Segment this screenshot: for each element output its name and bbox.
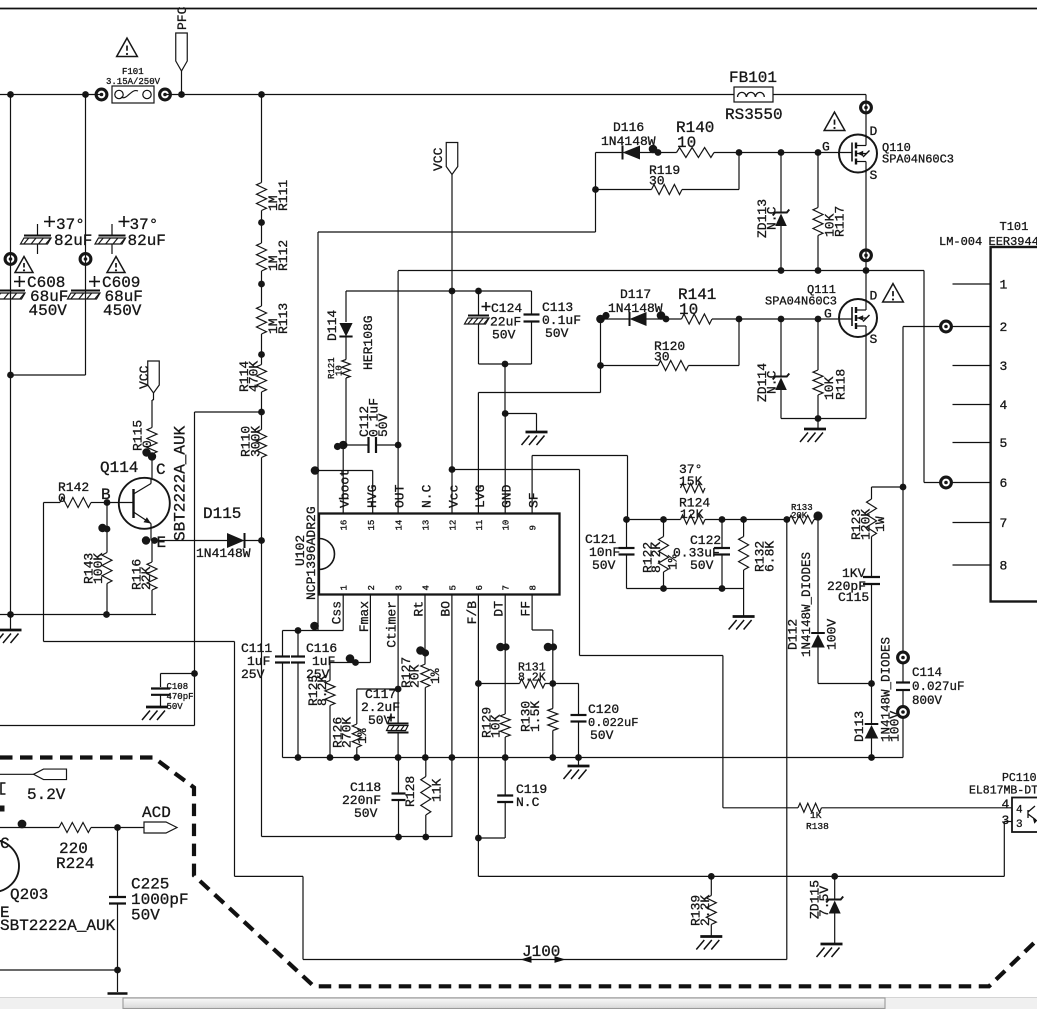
svg-text:N.C: N.C bbox=[765, 206, 780, 230]
resistor R138 1K bbox=[723, 803, 1012, 832]
wire Q111 source to ground rail bbox=[781, 336, 866, 422]
svg-text:Q203: Q203 bbox=[10, 886, 48, 904]
svg-text:PFC: PFC bbox=[175, 6, 190, 30]
svg-text:50V: 50V bbox=[492, 328, 516, 343]
resistor R130 1.5K bbox=[519, 684, 558, 761]
wire C108 node x=194.5 bbox=[0, 670, 198, 725]
svg-text:Q114: Q114 bbox=[100, 459, 138, 477]
svg-text:3.15A/250V: 3.15A/250V bbox=[106, 77, 161, 87]
svg-text:11K: 11K bbox=[430, 778, 445, 802]
svg-text:C: C bbox=[156, 461, 166, 479]
wire Q110 source to half-bridge rail with terminal bbox=[861, 171, 872, 274]
svg-text:D115: D115 bbox=[203, 505, 241, 523]
svg-text:22K: 22K bbox=[139, 566, 154, 590]
capacitor C609 68uF 450V bbox=[68, 274, 143, 320]
svg-text:10: 10 bbox=[677, 134, 696, 152]
svg-text:D: D bbox=[870, 289, 878, 304]
capacitor C608 68uF 450V bbox=[0, 274, 68, 320]
resistor R123 120K 1W bbox=[849, 499, 888, 540]
resistor R127 20K 1% bbox=[399, 657, 443, 761]
svg-text:DT: DT bbox=[492, 601, 507, 617]
svg-text:11: 11 bbox=[475, 520, 485, 531]
wire HV bus rail y=94.5 with junctions bbox=[0, 91, 866, 98]
svg-text:LVG: LVG bbox=[473, 485, 488, 508]
net flag VCC (Q114) bbox=[137, 361, 159, 428]
svg-text:6.8K: 6.8K bbox=[763, 541, 778, 572]
T101 pin stubs and numbers bbox=[953, 278, 1008, 574]
svg-text:1N4148W: 1N4148W bbox=[196, 546, 251, 561]
wire BO pin vertical bbox=[449, 594, 456, 837]
svg-text:6: 6 bbox=[1000, 476, 1008, 491]
svg-text:5: 5 bbox=[1000, 436, 1008, 451]
resistor variant 15K 37deg bbox=[679, 462, 705, 493]
wire OUT pin14 to half-bridge rail bbox=[397, 271, 399, 514]
svg-text:120K: 120K bbox=[859, 509, 874, 540]
resistor R116 22K bbox=[130, 541, 158, 615]
transistor Q114 SBT2222A_AUK bbox=[100, 425, 190, 552]
svg-text:82uF: 82uF bbox=[128, 232, 166, 250]
wire J100 jumper row bbox=[303, 943, 787, 963]
svg-text:800V: 800V bbox=[912, 694, 943, 708]
svg-text:50V: 50V bbox=[376, 413, 391, 437]
wire R115 to Q114 collector bbox=[142, 448, 156, 478]
svg-text:D116: D116 bbox=[613, 120, 644, 135]
svg-text:4: 4 bbox=[422, 585, 432, 590]
capacitor 82uF 37deg variant #1 bbox=[21, 216, 93, 254]
svg-text:300K: 300K bbox=[249, 426, 264, 457]
resistor R133 20K bbox=[789, 503, 823, 524]
wire divider bottom rail bbox=[627, 585, 744, 615]
svg-text:1.5K: 1.5K bbox=[528, 701, 543, 732]
svg-text:9: 9 bbox=[529, 525, 539, 530]
diode D114 HER108G bbox=[325, 310, 376, 370]
svg-text:50V: 50V bbox=[590, 728, 614, 743]
svg-text:E: E bbox=[157, 534, 167, 552]
transistor Q203 SBT2222A_AUK (partial at edge) bbox=[0, 835, 116, 935]
svg-text:D117: D117 bbox=[620, 287, 651, 302]
wire left bus A x=10.5 bbox=[10, 95, 12, 615]
wire C124/C113 bottom to GND pin bbox=[479, 361, 532, 414]
svg-text:SPA04N60C3: SPA04N60C3 bbox=[882, 153, 954, 167]
svg-text:14: 14 bbox=[395, 520, 405, 531]
svg-text:8: 8 bbox=[1000, 559, 1008, 574]
terminal ring T101 pin6 bbox=[941, 477, 952, 488]
svg-text:1W: 1W bbox=[873, 516, 888, 532]
wire DT net vertical x=786.8 to J100 bbox=[786, 520, 788, 960]
wire Ctimer node bbox=[357, 594, 402, 724]
svg-text:1: 1 bbox=[340, 585, 350, 590]
capacitor C117 2.2uF 50V bbox=[361, 687, 409, 761]
terminal ring T101 pin2 bbox=[941, 321, 952, 332]
resistor R124 12K bbox=[679, 496, 710, 525]
svg-text:FF: FF bbox=[519, 601, 534, 617]
svg-text:100V: 100V bbox=[825, 619, 840, 650]
svg-text:ACD: ACD bbox=[142, 804, 171, 822]
svg-text:3: 3 bbox=[395, 585, 405, 590]
scrollbar at bottom bbox=[0, 998, 1037, 1009]
wire HVG drive net bbox=[318, 153, 599, 233]
svg-text:20K: 20K bbox=[408, 664, 423, 688]
svg-text:15K: 15K bbox=[679, 474, 703, 489]
svg-text:EER3944: EER3944 bbox=[989, 235, 1037, 249]
svg-text:R138: R138 bbox=[806, 821, 829, 832]
wire Q110 gate row bbox=[739, 149, 852, 156]
diode D115 1N4148W bbox=[196, 505, 251, 561]
wire x=318 vertical HVG-to-Css route bbox=[310, 232, 319, 631]
fuse F101 3.15A/250V bbox=[96, 67, 170, 103]
svg-text:10: 10 bbox=[335, 365, 345, 376]
wire T101 pin2 to C114 bbox=[903, 327, 941, 652]
capacitor C116 1uF 25V bbox=[291, 631, 337, 761]
resistor R113 1M bbox=[257, 303, 292, 334]
svg-text:10K: 10K bbox=[489, 714, 504, 738]
wire PC110 pin3 to F/B net bbox=[1004, 822, 1012, 877]
svg-text:50V: 50V bbox=[167, 702, 184, 712]
svg-text:LM-004: LM-004 bbox=[939, 235, 982, 249]
svg-text:F101: F101 bbox=[122, 67, 144, 77]
warning triangle near C609 bbox=[107, 257, 125, 273]
svg-text:R224: R224 bbox=[56, 855, 94, 873]
terminal ring on bus A bbox=[5, 254, 16, 265]
wire VCC row y=291 and D114 branch bbox=[346, 288, 532, 445]
capacitor C119 N.C bbox=[497, 758, 547, 839]
ground under left bus bbox=[0, 615, 22, 644]
wire LVG pin11 to R120 node bbox=[478, 366, 600, 514]
wire Fmax row bbox=[330, 594, 370, 681]
svg-text:50V: 50V bbox=[368, 713, 392, 728]
resistor R131 8.2K bbox=[478, 662, 578, 689]
wire divider chain x=261.5 bbox=[258, 95, 265, 837]
svg-text:S: S bbox=[870, 332, 878, 347]
svg-text:HER108G: HER108G bbox=[361, 315, 376, 370]
wire emitter row with D115 bbox=[142, 536, 262, 544]
capacitor C114 0.027uF 800V with terminals bbox=[896, 652, 965, 757]
svg-text:8.2K: 8.2K bbox=[518, 672, 546, 685]
svg-text:50V: 50V bbox=[690, 558, 714, 573]
svg-text:8.2K: 8.2K bbox=[649, 542, 664, 573]
svg-text:7: 7 bbox=[1000, 516, 1008, 531]
capacitor C108 470pF 50V bbox=[142, 674, 195, 721]
svg-text:25V: 25V bbox=[241, 667, 265, 682]
svg-text:N.C: N.C bbox=[765, 370, 780, 394]
svg-text:16: 16 bbox=[340, 520, 350, 531]
capacitor C225 1000pF 50V bbox=[108, 828, 189, 994]
svg-text:10: 10 bbox=[502, 520, 512, 531]
svg-text:30: 30 bbox=[649, 174, 665, 189]
resistor R128 11K bbox=[403, 758, 445, 841]
wire Q114 base node bbox=[98, 499, 110, 552]
wire Vcc to opto route bbox=[452, 470, 723, 808]
svg-text:SPA04N60C3: SPA04N60C3 bbox=[765, 295, 837, 309]
wire LVG drive left node bbox=[596, 312, 609, 369]
opto-coupler PC110 EL817MB-DT bbox=[969, 772, 1037, 832]
capacitor C115 220pF 1KV bbox=[827, 537, 880, 684]
svg-text:C108: C108 bbox=[167, 682, 189, 692]
svg-text:D112: D112 bbox=[786, 619, 801, 650]
svg-text:Ctimer: Ctimer bbox=[385, 601, 400, 648]
svg-text:R112: R112 bbox=[276, 240, 291, 271]
wire rail y=757.5 (signal ground return) bbox=[283, 757, 904, 759]
U102 pin numbers bbox=[340, 520, 539, 591]
transformer T101 EER3944 LM-004 bbox=[939, 220, 1037, 602]
svg-text:82uF: 82uF bbox=[54, 232, 92, 250]
wire HVG pin15 branch bbox=[318, 471, 373, 514]
svg-text:D: D bbox=[870, 124, 878, 139]
resistor R119 30 bbox=[596, 163, 740, 195]
svg-text:N.C: N.C bbox=[516, 795, 540, 810]
wire R141/R120 right join bbox=[736, 316, 743, 366]
svg-text:BO: BO bbox=[438, 601, 453, 617]
wire Q111 gate row bbox=[739, 316, 852, 323]
svg-text:12: 12 bbox=[448, 520, 458, 531]
ground under Q111 bbox=[800, 419, 826, 443]
svg-text:FB101: FB101 bbox=[729, 69, 777, 87]
warning triangle near F101 bbox=[117, 38, 138, 56]
svg-text:7: 7 bbox=[502, 585, 512, 590]
diode D116 1N4148W bbox=[596, 120, 677, 160]
wire Q111 drain bbox=[865, 271, 867, 301]
svg-text:3: 3 bbox=[1000, 359, 1008, 374]
svg-text:VCC: VCC bbox=[431, 147, 446, 171]
resistor R129 10K bbox=[480, 707, 511, 761]
dashed boundary of standby section bbox=[0, 758, 1037, 987]
svg-text:D114: D114 bbox=[325, 310, 340, 341]
op-amp U102 NCP1396ADR2G controller IC body bbox=[293, 506, 560, 600]
svg-text:6: 6 bbox=[475, 585, 485, 590]
resistor R122 8.2K 1% bbox=[641, 520, 681, 589]
ground below C120 on rail bbox=[564, 758, 590, 780]
transistor Q111 SPA04N60C3 MOSFET bbox=[765, 283, 878, 347]
resistor R120 30 bbox=[601, 339, 740, 371]
svg-text:15: 15 bbox=[367, 520, 377, 531]
svg-text:1: 1 bbox=[1000, 278, 1008, 293]
top toolbar edge line bbox=[0, 8, 1037, 10]
resistor R143 100K bbox=[82, 553, 113, 615]
svg-text:EL817MB-DT: EL817MB-DT bbox=[969, 785, 1037, 798]
svg-text:4: 4 bbox=[1000, 398, 1008, 413]
resistor R139 2.2K bbox=[689, 876, 723, 949]
svg-text:VCC: VCC bbox=[137, 365, 152, 389]
svg-text:1%: 1% bbox=[355, 728, 370, 744]
svg-text:50V: 50V bbox=[592, 558, 616, 573]
svg-text:1K: 1K bbox=[810, 810, 822, 821]
resistor R142 0 bbox=[44, 480, 108, 508]
svg-text:Rt: Rt bbox=[412, 601, 427, 617]
capacitor C120 0.022uF 50V bbox=[571, 684, 639, 761]
resistor R132 6.8K bbox=[739, 520, 778, 589]
capacitor C112 0.1uF 50V bbox=[343, 398, 401, 453]
zener ZD114 N.C bbox=[755, 319, 789, 419]
wire left bus B x=85.5 joining at y=375 bbox=[7, 95, 85, 379]
svg-text:450V: 450V bbox=[103, 302, 142, 320]
svg-text:3: 3 bbox=[1016, 819, 1023, 831]
svg-text:13: 13 bbox=[422, 520, 432, 531]
ground under divider block bbox=[729, 617, 755, 630]
wire standby bottom rail bbox=[0, 967, 121, 974]
zener ZD115 7.5V bbox=[808, 876, 844, 957]
terminal ring on bus B bbox=[80, 254, 91, 265]
wire F/B pin6 net bbox=[475, 594, 1004, 880]
resistor R115 0 bbox=[131, 420, 158, 454]
net flag 5.2V bbox=[0, 769, 67, 811]
wire Q110 drain to HV rail with terminal bbox=[861, 95, 872, 137]
resistor R117 10K bbox=[813, 153, 848, 271]
svg-text:30: 30 bbox=[654, 350, 670, 365]
resistor R141 10 bbox=[678, 286, 739, 324]
svg-text:3: 3 bbox=[1002, 813, 1010, 828]
svg-text:R117: R117 bbox=[833, 206, 848, 237]
wire feedback divider top rail y=519.5 bbox=[623, 516, 790, 523]
svg-text:R118: R118 bbox=[834, 369, 849, 400]
capacitor C121 10nF 50V bbox=[585, 520, 635, 589]
svg-text:RS3550: RS3550 bbox=[725, 106, 783, 124]
wire Q203 collector row bbox=[0, 820, 145, 831]
transistor Q110 SPA04N60C3 MOSFET bbox=[822, 124, 954, 183]
svg-text:J100: J100 bbox=[522, 943, 560, 961]
svg-text:R111: R111 bbox=[276, 180, 291, 211]
wire half-bridge rail to T101 pin6 bbox=[398, 267, 940, 482]
svg-text:N.C: N.C bbox=[420, 484, 435, 508]
svg-text:20K: 20K bbox=[791, 511, 808, 521]
svg-text:0: 0 bbox=[140, 440, 155, 448]
svg-text:8.2K: 8.2K bbox=[315, 675, 330, 706]
wire DT pin7 vertical bbox=[496, 594, 509, 714]
svg-text:5: 5 bbox=[448, 585, 458, 590]
resistor R224 220 bbox=[56, 823, 94, 874]
ground at U102 GND pin bbox=[522, 432, 548, 445]
svg-text:10: 10 bbox=[679, 301, 698, 319]
svg-text:4: 4 bbox=[1002, 797, 1010, 812]
wire Vboot pin16 node bbox=[334, 441, 348, 514]
warning triangle near C608 bbox=[15, 257, 33, 273]
svg-text:S: S bbox=[870, 168, 878, 183]
svg-text:50V: 50V bbox=[131, 907, 160, 925]
svg-text:Vboot: Vboot bbox=[338, 469, 353, 508]
resistor R111 1M bbox=[257, 180, 292, 211]
resistor R114 470K bbox=[237, 361, 267, 392]
svg-text:1N4148W_DIODES: 1N4148W_DIODES bbox=[800, 552, 814, 657]
wire GND pin10 node bbox=[502, 410, 537, 513]
svg-text:F/B: F/B bbox=[465, 601, 480, 625]
diode D117 1N4148W bbox=[601, 287, 682, 326]
svg-text:7.5V: 7.5V bbox=[817, 886, 832, 917]
svg-text:C115: C115 bbox=[838, 590, 869, 605]
wire R123 top branch bbox=[872, 484, 907, 499]
svg-text:Fmax: Fmax bbox=[357, 601, 372, 632]
svg-text:1N4148W: 1N4148W bbox=[601, 134, 656, 149]
resistor R121 10 bbox=[327, 357, 350, 379]
capacitor 82uF 37deg variant #2 bbox=[95, 216, 166, 254]
wire lower rail y=836.5 bbox=[262, 836, 452, 838]
svg-text:NCP1396ADR2G: NCP1396ADR2G bbox=[304, 506, 319, 600]
svg-text:0: 0 bbox=[58, 491, 66, 506]
net flag VCC (U102) bbox=[431, 143, 458, 175]
capacitor C111 1uF 25V bbox=[241, 631, 290, 758]
wire Css row y=630.5 bbox=[283, 594, 344, 634]
svg-text:8: 8 bbox=[529, 585, 539, 590]
svg-text:PC110: PC110 bbox=[1002, 772, 1037, 785]
svg-text:470K: 470K bbox=[247, 361, 262, 392]
resistor R126 270K 1% bbox=[331, 717, 371, 761]
svg-text:C120: C120 bbox=[588, 702, 619, 717]
resistor R110 300K bbox=[239, 426, 267, 458]
svg-text:G: G bbox=[824, 307, 832, 322]
wire Rt node bbox=[416, 594, 429, 664]
svg-text:270K: 270K bbox=[340, 717, 355, 748]
svg-text:470pF: 470pF bbox=[167, 692, 194, 702]
svg-text:C: C bbox=[0, 835, 10, 853]
zener ZD113 N.C bbox=[755, 153, 789, 271]
wire divider tap to C108 node bbox=[195, 412, 262, 674]
warning triangle near Q111 bbox=[883, 284, 904, 302]
resistor R112 1M bbox=[257, 240, 292, 271]
svg-text:C114: C114 bbox=[912, 666, 942, 680]
resistor R140 10 bbox=[676, 119, 739, 158]
svg-text:2: 2 bbox=[1000, 320, 1008, 335]
svg-text:1%: 1% bbox=[428, 668, 443, 684]
wire ground rail y=614.5 bbox=[0, 611, 156, 618]
capacitor C122 0.33uF 50V bbox=[673, 520, 730, 589]
diode D113 1N4148W 100V bbox=[852, 637, 903, 761]
net flag PFC bbox=[175, 6, 190, 94]
svg-text:SBT2222A_AUK: SBT2222A_AUK bbox=[172, 425, 190, 541]
svg-text:GND: GND bbox=[500, 484, 515, 508]
svg-text:D113: D113 bbox=[852, 711, 867, 742]
svg-text:0.027uF: 0.027uF bbox=[912, 680, 965, 694]
resistor R125 8.2K bbox=[306, 675, 335, 761]
diode D112 1N4148W 100V bbox=[786, 520, 875, 687]
capacitor C118 220nF 50V bbox=[342, 758, 406, 841]
svg-text:100K: 100K bbox=[91, 553, 106, 584]
svg-text:12K: 12K bbox=[680, 507, 704, 522]
net flag ACD bbox=[142, 804, 177, 833]
svg-text:T101: T101 bbox=[1000, 220, 1029, 234]
wire FF pin8 jog bbox=[532, 594, 557, 684]
wire rail end marker bbox=[870, 756, 872, 758]
wire SF pin9 to feedback divider rail bbox=[532, 456, 627, 520]
ferrite bead FB101 RS3550 bbox=[725, 69, 783, 124]
svg-text:G: G bbox=[822, 140, 830, 155]
svg-text:Css: Css bbox=[330, 601, 345, 624]
svg-text:5.2V: 5.2V bbox=[27, 786, 66, 804]
svg-text:1N4148W: 1N4148W bbox=[608, 301, 663, 316]
warning triangle near Q110 bbox=[824, 112, 845, 130]
svg-text:R128: R128 bbox=[403, 776, 418, 807]
svg-text:Vcc: Vcc bbox=[446, 485, 461, 508]
svg-text:4: 4 bbox=[1016, 805, 1023, 817]
svg-text:2: 2 bbox=[367, 585, 377, 590]
U102 top pin labels bbox=[338, 469, 542, 508]
svg-text:450V: 450V bbox=[29, 302, 68, 320]
svg-text:R113: R113 bbox=[276, 303, 291, 334]
resistor R118 10K bbox=[813, 319, 849, 419]
svg-text:OUT: OUT bbox=[393, 484, 408, 508]
wire R140/R119 right join bbox=[736, 149, 743, 189]
U102 bottom pin labels bbox=[330, 601, 534, 648]
capacitor C113 0.1uF 50V bbox=[524, 291, 582, 364]
svg-text:SBT2222A_AUK: SBT2222A_AUK bbox=[0, 917, 116, 935]
svg-text:50V: 50V bbox=[354, 806, 378, 821]
wire loop R142-left to J100 net bbox=[44, 503, 304, 960]
wire VCC vertical pin12 bbox=[449, 175, 456, 514]
svg-text:SF: SF bbox=[527, 492, 542, 508]
svg-text:2.2K: 2.2K bbox=[698, 895, 713, 926]
svg-text:50V: 50V bbox=[545, 326, 569, 341]
capacitor C124 22uF 50V bbox=[465, 291, 523, 364]
